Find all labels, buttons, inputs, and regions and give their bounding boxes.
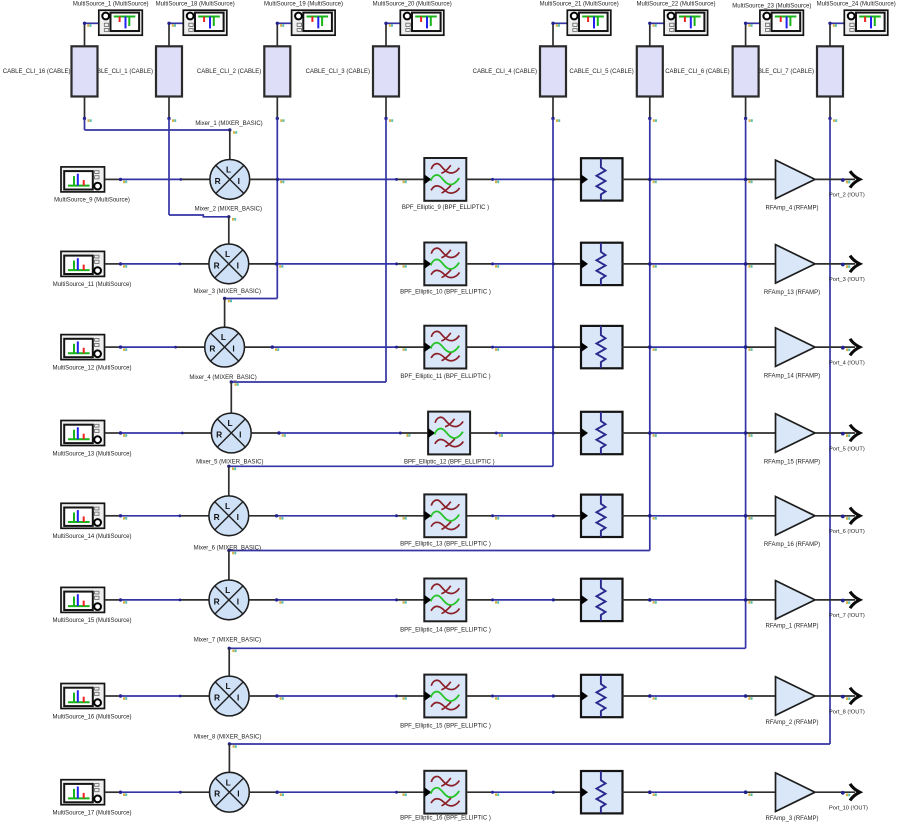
junction at cable top corner (384, 22, 393, 27)
output port Port_2 (850, 171, 860, 188)
resistor load block row 2 (581, 243, 623, 285)
wire net from MultiSource_9 to mixer R pin (105, 178, 210, 180)
junction after mixer I (275, 514, 284, 520)
svg-text:RFAmp_15 (RFAMP): RFAmp_15 (RFAMP) (764, 459, 820, 465)
svg-text:I: I (237, 596, 239, 606)
wire net from MultiSource_13 to mixer R pin (105, 432, 212, 434)
junction before port (841, 791, 850, 796)
wire cable CABLE_CLI_16 top pin to MultiSource sink (85, 23, 99, 46)
svg-text:MultiSource_1 (MultiSource): MultiSource_1 (MultiSource) (73, 1, 149, 7)
svg-text:Port_3 (!OUT): Port_3 (!OUT) (829, 277, 865, 283)
svg-text:BPF_Elliptic_12 (BPF_ELLIPTIC: BPF_Elliptic_12 (BPF_ELLIPTIC ) (404, 459, 495, 465)
junction before port (841, 432, 850, 437)
wire LO net from CABLE_CLI_16 to Mixer row 1 (85, 119, 230, 131)
svg-text:L: L (225, 249, 230, 259)
svg-text:MultiSource_16 (MultiSource): MultiSource_16 (MultiSource) (52, 714, 131, 720)
junction after source (119, 262, 127, 268)
wire mixer L pin lead row 8 (228, 744, 230, 772)
svg-text:BPF_Elliptic_14 (BPF_ELLIPTIC: BPF_Elliptic_14 (BPF_ELLIPTIC ) (400, 627, 491, 633)
wire LO net from CABLE_CLI_7 to Mixer row 8 (229, 119, 830, 745)
junction after load output (648, 790, 657, 796)
junction before port (841, 346, 850, 351)
svg-text:I: I (238, 176, 240, 186)
svg-text:R: R (214, 596, 220, 606)
resistor load block row 7 (581, 675, 623, 717)
wire net from MultiSource_12 to mixer R pin (105, 346, 205, 348)
svg-text:MultiSource_17 (MultiSource): MultiSource_17 (MultiSource) (52, 811, 131, 817)
wire net from mixer I pin to BPF_Elliptic_15 (249, 695, 424, 697)
band-pass filter BPF_Elliptic_15 (424, 675, 466, 718)
wire cable CABLE_CLI_6 top pin to MultiSource sink (746, 23, 760, 46)
svg-text:CABLE_CLI_2 (CABLE): CABLE_CLI_2 (CABLE) (197, 69, 261, 75)
output port Port_10 (850, 784, 860, 801)
svg-text:I: I (232, 344, 234, 354)
wire net from mixer I pin to BPF_Elliptic_13 (249, 515, 425, 517)
svg-text:Mixer_3 (MIXER_BASIC): Mixer_3 (MIXER_BASIC) (194, 289, 261, 295)
junction before load input (552, 514, 555, 517)
amplifier RFAmp_4 (776, 160, 816, 199)
wire cable CABLE_CLI_6 bottom pin (745, 97, 747, 119)
junction at cable bottom (828, 117, 837, 122)
junction before BPF input (395, 695, 407, 700)
svg-text:Mixer_7 (MIXER_BASIC): Mixer_7 (MIXER_BASIC) (194, 637, 261, 643)
wire net from mixer I pin to BPF_Elliptic_10 (249, 263, 425, 265)
junction at cable bottom (744, 117, 753, 122)
svg-text:RFAmp_4 (RFAMP): RFAmp_4 (RFAMP) (765, 206, 818, 212)
svg-text:Port_6 (!OUT): Port_6 (!OUT) (829, 529, 865, 535)
svg-text:Port_10 (!OUT): Port_10 (!OUT) (829, 806, 868, 812)
wire net from amplifier output to Port_5 (815, 432, 855, 434)
junction after mixer I (275, 262, 284, 268)
wire mixer L pin lead row 2 (228, 217, 230, 244)
junction at cable bottom (167, 117, 176, 122)
junction before load input (552, 431, 555, 434)
wire net from amplifier output to Port_4 (815, 346, 855, 348)
cable CABLE_CLI_1 (156, 46, 182, 96)
multisource sink MultiSource_24 (844, 10, 888, 35)
band-pass filter BPF_Elliptic_14 (424, 579, 466, 622)
junction after mixer I (275, 598, 284, 603)
resistor load block row 8 (581, 771, 623, 813)
svg-text:R: R (214, 512, 220, 522)
junction after load output (648, 262, 657, 268)
svg-text:R: R (215, 176, 221, 186)
junction before load input (552, 694, 555, 697)
svg-text:CABLE_CLI_3 (CABLE): CABLE_CLI_3 (CABLE) (306, 69, 370, 75)
band-pass filter BPF_Elliptic_9 (424, 158, 466, 201)
svg-text:R: R (214, 260, 220, 270)
svg-text:Port_5 (!OUT): Port_5 (!OUT) (829, 446, 865, 452)
junction at cable bottom (648, 117, 657, 122)
amplifier RFAmp_2 (776, 677, 816, 716)
svg-text:MultiSource_20 (MultiSource): MultiSource_20 (MultiSource) (373, 1, 452, 7)
svg-text:Mixer_1 (MIXER_BASIC): Mixer_1 (MIXER_BASIC) (195, 121, 262, 127)
mixer Mixer_2 (210, 160, 250, 200)
svg-text:MultiSource_21 (MultiSource): MultiSource_21 (MultiSource) (540, 1, 619, 7)
multisource sink MultiSource_23 (760, 10, 804, 35)
wire cable CABLE_CLI_2 top pin to MultiSource sink (277, 23, 291, 46)
junction at cable bottom (276, 117, 285, 122)
wire LO net from CABLE_CLI_2 to Mixer row 3 (225, 119, 278, 299)
wire mixer L pin lead row 3 (224, 299, 226, 328)
junction before mixer R (181, 432, 184, 435)
mixer Mixer_8 (209, 676, 249, 716)
wire mixer L pin lead row 5 (228, 466, 230, 496)
junction before BPF input (395, 346, 407, 351)
wire net from amplifier output to Port_2 (815, 178, 855, 180)
junction before BPF input (399, 432, 411, 437)
wire net from BPF_Elliptic_12 output to load row 4 (470, 432, 580, 434)
junction after BPF output (491, 695, 499, 700)
wire net from load to RFAmp_2 row 7 (622, 695, 776, 697)
cable CABLE_CLI_5 (637, 46, 663, 96)
amplifier RFAmp_14 (776, 328, 816, 367)
wire LO net from CABLE_CLI_1 to Mixer row 2 (169, 119, 229, 217)
svg-text:MultiSource_23 (MultiSource): MultiSource_23 (MultiSource) (732, 3, 811, 9)
svg-text:L: L (226, 165, 231, 175)
multisource source MultiSource_15 (61, 587, 105, 612)
junction before load input (552, 346, 555, 349)
junction after load output (648, 514, 657, 520)
junction at cable top corner (83, 22, 92, 27)
junction before mixer R (179, 599, 182, 602)
resistor load block row 1 (581, 158, 623, 200)
amplifier RFAmp_16 (776, 497, 816, 536)
resistor load block row 5 (581, 495, 623, 537)
amplifier RFAmp_13 (776, 245, 816, 284)
junction before amplifier input (744, 345, 753, 351)
junction before mixer R (179, 178, 182, 181)
wire net from load to RFAmp_4 row 1 (622, 178, 776, 180)
wire cable CABLE_CLI_5 top pin to MultiSource sink (650, 23, 664, 46)
svg-text:I: I (237, 789, 239, 799)
junction before amplifier input (744, 514, 753, 520)
svg-text:MultiSource_11 (MultiSource): MultiSource_11 (MultiSource) (53, 282, 132, 288)
svg-text:Mixer_2 (MIXER_BASIC): Mixer_2 (MIXER_BASIC) (195, 207, 262, 213)
wire net from BPF_Elliptic_16 output to load row 8 (466, 791, 580, 793)
junction after BPF output (491, 262, 499, 267)
junction at cable top corner (744, 22, 753, 27)
junction before BPF input (395, 791, 407, 796)
wire net from MultiSource_14 to mixer R pin (105, 515, 209, 517)
svg-text:MultiSource_14 (MultiSource): MultiSource_14 (MultiSource) (52, 534, 131, 540)
svg-text:Mixer_5 (MIXER_BASIC): Mixer_5 (MIXER_BASIC) (196, 459, 263, 465)
junction after load output (648, 694, 657, 700)
junction before mixer R (179, 695, 182, 698)
amplifier RFAmp_15 (776, 414, 816, 453)
multisource sink MultiSource_1 (99, 10, 143, 35)
junction before load input (552, 178, 555, 181)
junction after BPF output (495, 432, 503, 437)
junction before amplifier input (744, 694, 753, 700)
wire net from load to RFAmp_16 row 5 (622, 515, 776, 517)
junction at mixer LO corner (223, 297, 232, 303)
junction at cable top corner (276, 22, 285, 27)
amplifier RFAmp_3 (776, 773, 816, 812)
band-pass filter BPF_Elliptic_11 (424, 326, 466, 369)
wire cable CABLE_CLI_2 bottom pin (276, 97, 278, 119)
svg-text:MultiSource_12 (MultiSource): MultiSource_12 (MultiSource) (52, 365, 131, 371)
output port Port_4 (850, 339, 860, 356)
wire net from mixer I pin to BPF_Elliptic_16 (249, 791, 424, 793)
multisource source MultiSource_12 (61, 335, 105, 360)
svg-text:L: L (221, 332, 226, 342)
junction after source (119, 598, 127, 603)
wire mixer L pin lead row 6 (228, 551, 230, 581)
svg-text:R: R (214, 789, 220, 799)
junction at mixer LO corner (228, 128, 237, 134)
junction before BPF input (395, 262, 407, 267)
multisource source MultiSource_9 (61, 167, 105, 192)
svg-text:I: I (237, 512, 239, 522)
wire LO net from CABLE_CLI_4 to Mixer row 5 (229, 119, 553, 467)
svg-text:MultiSource_13 (MultiSource): MultiSource_13 (MultiSource) (52, 451, 131, 457)
junction at cable bottom (83, 117, 92, 122)
junction before BPF input (395, 514, 407, 519)
mixer Mixer_4 (205, 327, 245, 367)
junction after BPF output (491, 178, 499, 183)
svg-text:I: I (237, 260, 239, 270)
output port Port_7 (850, 592, 860, 609)
junction after load output (648, 431, 657, 437)
svg-text:Port_2 (!OUT): Port_2 (!OUT) (829, 193, 865, 199)
wire cable CABLE_CLI_7 bottom pin (829, 97, 831, 119)
junction at cable top corner (551, 22, 560, 27)
junction at mixer LO corner (227, 465, 236, 471)
wire mixer L pin lead row 7 (228, 648, 230, 676)
svg-text:R: R (216, 429, 222, 439)
svg-text:Mixer_6 (MIXER_BASIC): Mixer_6 (MIXER_BASIC) (194, 545, 261, 551)
junction at mixer LO corner (227, 549, 236, 555)
junction before amplifier input (744, 178, 753, 184)
junction after source (119, 694, 127, 700)
svg-text:Mixer_4 (MIXER_BASIC): Mixer_4 (MIXER_BASIC) (189, 375, 256, 381)
wire net from load to RFAmp_14 row 3 (622, 346, 776, 348)
svg-text:CABLE_CLI_16 (CABLE): CABLE_CLI_16 (CABLE) (3, 69, 71, 75)
multisource sink MultiSource_20 (400, 10, 444, 35)
junction before mixer R (178, 263, 181, 266)
svg-text:L: L (225, 681, 230, 691)
svg-text:MultiSource_22 (MultiSource): MultiSource_22 (MultiSource) (636, 1, 715, 7)
svg-text:RFAmp_3 (RFAMP): RFAmp_3 (RFAMP) (765, 816, 818, 822)
junction at cable top corner (167, 22, 176, 27)
wire cable CABLE_CLI_1 top pin to MultiSource sink (169, 23, 183, 46)
junction before mixer R (178, 514, 181, 517)
svg-text:R: R (209, 344, 215, 354)
output port Port_8 (850, 688, 860, 705)
svg-text:CABLE_CLI_5 (CABLE): CABLE_CLI_5 (CABLE) (569, 69, 633, 75)
junction before BPF input (395, 178, 407, 183)
wire net from load to RFAmp_13 row 2 (622, 263, 776, 265)
junction after BPF output (491, 791, 499, 796)
wire net from mixer I pin to BPF_Elliptic_11 (245, 346, 425, 348)
wire mixer L pin lead row 1 (229, 130, 231, 160)
output port Port_3 (850, 256, 860, 273)
resistor load block row 3 (581, 326, 623, 368)
svg-text:RFAmp_16 (RFAMP): RFAmp_16 (RFAMP) (764, 542, 820, 548)
wire net from mixer I pin to BPF_Elliptic_12 (251, 432, 428, 434)
svg-text:L: L (225, 585, 230, 595)
wire net from mixer I pin to BPF_Elliptic_14 (249, 599, 424, 601)
multisource sink MultiSource_22 (664, 10, 708, 35)
wire net from amplifier output to Port_3 (815, 263, 855, 265)
cable CABLE_CLI_6 (733, 46, 759, 96)
svg-text:CABLE_CLI_4 (CABLE): CABLE_CLI_4 (CABLE) (473, 69, 537, 75)
mixer Mixer_7 (209, 580, 249, 620)
junction after source (119, 178, 127, 184)
svg-text:MultiSource_15 (MultiSource): MultiSource_15 (MultiSource) (52, 618, 131, 624)
multisource source MultiSource_11 (61, 251, 105, 276)
wire LO net from CABLE_CLI_3 to Mixer row 4 (231, 119, 386, 383)
wire net from MultiSource_11 to mixer R pin (105, 263, 209, 265)
cable CABLE_CLI_7 (817, 46, 843, 96)
wire net from load to RFAmp_1 row 6 (622, 599, 776, 601)
mixer Mixer_3 (209, 244, 249, 284)
svg-text:MultiSource_24 (MultiSource): MultiSource_24 (MultiSource) (817, 1, 896, 7)
svg-text:MultiSource_9 (MultiSource): MultiSource_9 (MultiSource) (54, 198, 130, 204)
junction before BPF input (395, 598, 407, 603)
junction before mixer R (179, 791, 182, 794)
wire cable CABLE_CLI_7 top pin to MultiSource sink (830, 23, 844, 46)
junction after load output (648, 598, 657, 604)
svg-text:MultiSource_19 (MultiSource): MultiSource_19 (MultiSource) (264, 1, 343, 7)
wire net from BPF_Elliptic_9 output to load row 1 (466, 178, 580, 180)
wire cable CABLE_CLI_1 bottom pin (168, 97, 170, 119)
junction after mixer I (275, 791, 284, 797)
wire cable CABLE_CLI_3 bottom pin (385, 97, 387, 119)
wire mixer L pin lead row 4 (230, 382, 232, 413)
svg-text:CABLE_CLI_6 (CABLE): CABLE_CLI_6 (CABLE) (665, 69, 729, 75)
svg-text:I: I (237, 692, 239, 702)
junction before amplifier input (744, 431, 753, 437)
cable CABLE_CLI_3 (373, 46, 399, 96)
svg-text:L: L (225, 501, 230, 511)
svg-text:MultiSource_18 (MultiSource): MultiSource_18 (MultiSource) (156, 1, 235, 7)
junction before port (841, 263, 850, 268)
junction at mixer LO corner (230, 380, 239, 386)
wire cable CABLE_CLI_16 bottom pin (84, 97, 86, 119)
wire net from BPF_Elliptic_10 output to load row 2 (466, 263, 580, 265)
wire net from load to RFAmp_3 row 8 (622, 791, 776, 793)
wire cable CABLE_CLI_5 bottom pin (649, 97, 651, 119)
svg-text:BPF_Elliptic_10 (BPF_ELLIPTIC: BPF_Elliptic_10 (BPF_ELLIPTIC ) (400, 289, 491, 295)
junction at mixer LO corner (228, 647, 237, 653)
wire net from BPF_Elliptic_15 output to load row 7 (466, 695, 580, 697)
junction before port (841, 178, 850, 183)
junction after mixer I (275, 694, 284, 700)
wire net from BPF_Elliptic_14 output to load row 6 (466, 599, 580, 601)
junction after BPF output (491, 598, 499, 603)
wire net from amplifier output to Port_8 (815, 695, 855, 697)
cable CABLE_CLI_16 (72, 46, 98, 96)
junction before mixer R (174, 346, 177, 349)
junction after source (119, 345, 127, 351)
svg-text:RFAmp_14 (RFAMP): RFAmp_14 (RFAMP) (764, 373, 820, 379)
resistor load block row 6 (581, 579, 623, 621)
junction after BPF output (491, 514, 499, 519)
multisource source MultiSource_13 (61, 421, 105, 446)
multisource sink MultiSource_19 (292, 10, 336, 35)
junction before port (841, 599, 850, 604)
band-pass filter BPF_Elliptic_13 (424, 494, 466, 537)
wire net from mixer I pin to BPF_Elliptic_9 (250, 178, 425, 180)
junction before port (841, 695, 850, 700)
svg-text:RFAmp_2 (RFAMP): RFAmp_2 (RFAMP) (765, 720, 818, 726)
svg-text:RFAmp_13 (RFAMP): RFAmp_13 (RFAMP) (764, 290, 820, 296)
amplifier RFAmp_1 (776, 581, 816, 620)
multisource sink MultiSource_21 (567, 10, 611, 35)
svg-text:Mixer_8 (MIXER_BASIC): Mixer_8 (MIXER_BASIC) (194, 735, 261, 741)
junction after load output (648, 345, 657, 351)
junction before load input (552, 262, 555, 265)
cable CABLE_CLI_4 (540, 46, 566, 96)
wire net from MultiSource_17 to mixer R pin (105, 791, 210, 793)
junction before amplifier input (744, 598, 753, 604)
wire net from MultiSource_15 to mixer R pin (105, 599, 209, 601)
mixer Mixer_5 (211, 413, 251, 453)
junction after mixer I (271, 345, 280, 351)
band-pass filter BPF_Elliptic_16 (424, 771, 466, 814)
junction before load input (552, 791, 555, 794)
wire LO net from CABLE_CLI_6 to Mixer row 7 (229, 119, 745, 649)
junction before load input (552, 598, 555, 601)
svg-text:BPF_Elliptic_9 (BPF_ELLIPTIC: BPF_Elliptic_9 (BPF_ELLIPTIC ) (402, 205, 489, 211)
cable CABLE_CLI_2 (264, 46, 290, 96)
wire cable CABLE_CLI_4 top pin to MultiSource sink (553, 23, 567, 46)
junction after source (119, 514, 127, 520)
wire net from amplifier output to Port_7 (815, 599, 855, 601)
svg-text:BPF_Elliptic_11 (BPF_ELLIPTIC: BPF_Elliptic_11 (BPF_ELLIPTIC ) (400, 374, 490, 380)
wire LO net from CABLE_CLI_5 to Mixer row 6 (229, 119, 650, 551)
wire net from amplifier output to Port_10 (815, 791, 855, 793)
wire cable CABLE_CLI_4 bottom pin (552, 97, 554, 119)
output port Port_6 (850, 508, 860, 525)
resistor load block row 4 (581, 412, 623, 454)
svg-text:BPF_Elliptic_16 (BPF_ELLIPTIC: BPF_Elliptic_16 (BPF_ELLIPTIC ) (400, 815, 491, 821)
junction at cable bottom (384, 117, 393, 122)
junction at cable bottom (551, 117, 560, 122)
junction at cable top corner (828, 22, 837, 27)
svg-text:R: R (214, 692, 220, 702)
multisource sink MultiSource_18 (183, 10, 227, 35)
svg-text:I: I (239, 429, 241, 439)
wire net from BPF_Elliptic_11 output to load row 3 (466, 346, 580, 348)
band-pass filter BPF_Elliptic_12 (428, 412, 470, 455)
junction after mixer I (276, 178, 285, 184)
junction after load output (648, 178, 657, 184)
svg-text:BPF_Elliptic_13 (BPF_ELLIPTIC: BPF_Elliptic_13 (BPF_ELLIPTIC ) (400, 541, 491, 547)
svg-text:Port_7 (!OUT): Port_7 (!OUT) (829, 613, 865, 619)
wire net from amplifier output to Port_6 (815, 515, 855, 517)
junction before amplifier input (744, 262, 753, 268)
svg-text:L: L (226, 777, 231, 787)
junction after mixer I (277, 431, 286, 437)
mixer Mixer_9 (210, 772, 250, 812)
junction before port (841, 515, 850, 520)
multisource source MultiSource_17 (61, 780, 105, 805)
multisource source MultiSource_16 (61, 684, 105, 709)
wire net from MultiSource_16 to mixer R pin (105, 695, 210, 697)
band-pass filter BPF_Elliptic_10 (424, 243, 466, 286)
junction after source (119, 791, 127, 797)
svg-text:Port_8 (!OUT): Port_8 (!OUT) (829, 709, 865, 715)
wire net from load to RFAmp_15 row 4 (622, 432, 776, 434)
junction after source (119, 431, 127, 437)
svg-text:Port_4 (!OUT): Port_4 (!OUT) (829, 360, 865, 366)
svg-text:RFAmp_1 (RFAMP): RFAmp_1 (RFAMP) (765, 624, 818, 630)
output port Port_5 (850, 425, 860, 442)
junction at cable top corner (648, 22, 657, 27)
